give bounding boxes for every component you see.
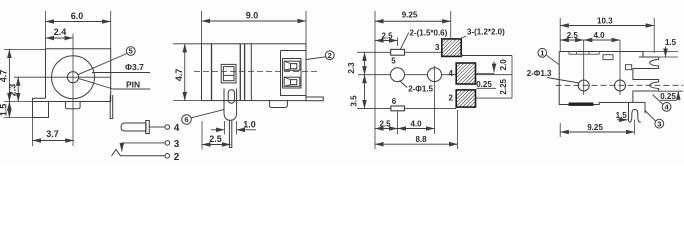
svg-text:9.25: 9.25 bbox=[402, 11, 418, 20]
view 4 dashed centerline bbox=[556, 84, 684, 86]
view 2 center pin slot bbox=[228, 90, 234, 104]
view 1 left mounting leg bbox=[33, 98, 49, 117]
view 4 pin 3 bent terminal bbox=[629, 109, 641, 122]
svg-text:3: 3 bbox=[174, 139, 180, 150]
view 2 dashed centerline bbox=[194, 71, 319, 73]
svg-text:2: 2 bbox=[449, 94, 454, 103]
view 2 dim 4.7 extension lines bbox=[173, 43, 202, 45]
view 3 bottom dim 2.5 bbox=[375, 128, 398, 130]
svg-text:5: 5 bbox=[391, 57, 396, 66]
leader balloon 4 bbox=[653, 95, 663, 105]
view 1 horizontal centerline bbox=[14, 76, 111, 78]
svg-text:2.5: 2.5 bbox=[379, 120, 391, 129]
svg-text:2-Φ1.5: 2-Φ1.5 bbox=[408, 85, 433, 94]
svg-text:10.3: 10.3 bbox=[597, 17, 613, 26]
view 2 terminal block inner bbox=[283, 59, 302, 89]
view 4 comb base recess profile bbox=[633, 57, 643, 102]
svg-text:4: 4 bbox=[174, 123, 180, 134]
view 4 bottom dark slot bbox=[569, 103, 593, 106]
view 3 right reference line bbox=[511, 56, 513, 99]
view 2 lower contact bbox=[284, 77, 300, 86]
svg-text:4.7: 4.7 bbox=[0, 70, 9, 83]
view 3 dim 2.3 bbox=[364, 52, 366, 74]
vertical centerline through right hole bbox=[434, 66, 436, 134]
svg-text:8.8: 8.8 bbox=[415, 135, 427, 144]
svg-text:9.25: 9.25 bbox=[587, 123, 603, 132]
view 2 terminal block outer bbox=[281, 51, 307, 96]
dim 9.0 extension lines bbox=[201, 11, 203, 44]
view 2 side window outer bbox=[221, 64, 236, 83]
svg-text:1.5: 1.5 bbox=[0, 104, 9, 117]
view 1 vertical centerline bbox=[72, 34, 74, 147]
leader balloon 6 to center pin bbox=[191, 110, 224, 118]
svg-text:2.0: 2.0 bbox=[499, 59, 508, 71]
view 3 dim 2.5 top bbox=[375, 40, 398, 42]
dim 2.5 extension line bbox=[201, 121, 203, 150]
leader to balloon 5 bbox=[78, 54, 127, 75]
svg-text:2-(1.5*0.6): 2-(1.5*0.6) bbox=[410, 29, 448, 38]
dim 10.3 bbox=[560, 25, 654, 27]
dim 4.0 top bbox=[584, 39, 620, 41]
dim 1.0 extension lines bbox=[224, 121, 226, 135]
pad 6 (1.5x0.6) bbox=[391, 106, 405, 111]
svg-text:9.0: 9.0 bbox=[246, 11, 259, 21]
svg-text:2.25: 2.25 bbox=[499, 78, 508, 94]
dim 2.0 arrow bbox=[493, 62, 495, 73]
svg-text:4.0: 4.0 bbox=[410, 120, 422, 129]
view 4 arch centerline bbox=[634, 120, 636, 135]
dim 2.5 top bbox=[560, 39, 584, 41]
balloon 1 bbox=[538, 48, 547, 57]
view 2 internal wall lines bbox=[239, 44, 241, 101]
dim 4.7 bbox=[8, 49, 10, 101]
dim 9.25 bottom bbox=[560, 131, 634, 133]
svg-text:6: 6 bbox=[392, 97, 397, 106]
svg-text:0.25: 0.25 bbox=[660, 92, 676, 101]
line pad3 to right reference bbox=[461, 55, 512, 57]
dim 2.3 bbox=[17, 77, 19, 101]
view 4 small slot B bbox=[626, 65, 632, 70]
svg-text:1.0: 1.0 bbox=[243, 120, 256, 130]
view 1 right mounting leg bbox=[110, 95, 113, 119]
view 2 upper contact bbox=[284, 61, 300, 70]
view 1 barrel outer circle bbox=[52, 56, 95, 99]
dim 9.25 bbox=[375, 20, 451, 22]
pad 4 (1.2x2.0) hatched bbox=[456, 63, 475, 84]
balloon 4 bbox=[662, 103, 671, 112]
svg-text:3.7: 3.7 bbox=[46, 129, 59, 139]
dim 6.0 extension lines bbox=[45, 11, 47, 49]
view 2 right pcb tab bbox=[306, 97, 323, 101]
view 4 top edge slot bbox=[569, 52, 599, 55]
svg-text:0.25: 0.25 bbox=[476, 80, 492, 89]
view 3 left reference line bbox=[374, 11, 376, 149]
svg-text:2.5: 2.5 bbox=[381, 32, 393, 41]
view 2 front panel line bbox=[211, 44, 213, 101]
dim 6.0 bbox=[46, 21, 111, 23]
svg-text:4: 4 bbox=[449, 69, 454, 78]
svg-text:3.5: 3.5 bbox=[350, 95, 359, 107]
view 4 pin 3 housing bbox=[629, 102, 646, 121]
view 3 dim 2.5 top extension bbox=[397, 38, 399, 47]
view 2 dim 4.7 bbox=[184, 44, 186, 101]
view 2 body outline (side view) bbox=[202, 44, 307, 101]
balloon 2 bbox=[325, 51, 334, 60]
dim 4.7 extension lines bbox=[4, 48, 46, 50]
view 4 hole vertical centerlines bbox=[583, 40, 585, 95]
svg-text:4.0: 4.0 bbox=[593, 31, 605, 40]
view 1 center shield tab bbox=[65, 102, 80, 109]
line pad4 top-right bbox=[476, 73, 495, 75]
view 4 body outline (top view) bbox=[559, 52, 643, 105]
svg-text:2.5: 2.5 bbox=[209, 134, 222, 144]
svg-text:4.7: 4.7 bbox=[174, 69, 184, 82]
spring contact symbol pin 2 bbox=[112, 150, 165, 157]
svg-text:2.3: 2.3 bbox=[347, 62, 356, 74]
balloon 6 bbox=[182, 115, 192, 125]
svg-text:Φ3.7: Φ3.7 bbox=[125, 62, 144, 72]
dim 9.25 extension bbox=[450, 11, 452, 39]
balloon 5 bbox=[126, 47, 135, 56]
view 2 mounting foot bbox=[269, 101, 287, 108]
view 4 terminal tooth middle bbox=[639, 80, 659, 92]
leader balloon 3 bbox=[645, 111, 656, 122]
dim 8.8 bbox=[375, 143, 458, 145]
pad 2 (1.2x2.0) hatched bbox=[456, 90, 475, 107]
leader balloon 1 bbox=[547, 55, 560, 64]
leader balloon 2 bbox=[306, 57, 326, 60]
dim 2.4 bbox=[46, 37, 74, 39]
view 1 center pin circle bbox=[67, 72, 78, 83]
svg-text:2.5: 2.5 bbox=[567, 31, 579, 40]
dim 1.0 arrows bbox=[211, 129, 225, 131]
vertical extension below left hole bbox=[397, 111, 399, 134]
svg-text:2.3: 2.3 bbox=[8, 84, 18, 97]
view 3 dim 3.5 bbox=[364, 75, 366, 109]
dim 3.7 extension lines bbox=[32, 118, 34, 147]
pad 5 (1.5x0.6) bbox=[391, 49, 405, 55]
dim 1.5 extension line bbox=[4, 117, 33, 119]
svg-text:6.0: 6.0 bbox=[71, 11, 84, 21]
view 2 side window inner bbox=[223, 67, 234, 81]
dim 9.25 extension bbox=[559, 123, 561, 137]
pad 3 (1.2x2.0) hatched bbox=[442, 39, 461, 57]
dim 8.8 extension bbox=[457, 110, 459, 149]
line pad2 right bbox=[476, 97, 513, 99]
view 4 mounting hole left 1.3 bbox=[578, 80, 589, 91]
view 3 horizontal centerline bbox=[358, 74, 512, 76]
view 3 bottom pad row line bbox=[357, 107, 456, 109]
label 2-dia1.5 with leader bbox=[400, 81, 408, 88]
view 1 body outline (front view) bbox=[46, 49, 111, 102]
svg-text:1.5: 1.5 bbox=[665, 38, 677, 47]
dim 3.7 bbox=[33, 140, 74, 142]
moving contact arrow bbox=[121, 143, 123, 152]
svg-text:1: 1 bbox=[540, 48, 544, 57]
view 1 body bottom edge bbox=[33, 101, 111, 103]
svg-text:3-(1.2*2.0): 3-(1.2*2.0) bbox=[467, 28, 505, 37]
view 4 mounting hole right bbox=[615, 80, 626, 91]
dim 9.0 bbox=[202, 20, 307, 22]
dim 0.25 right bbox=[659, 90, 683, 92]
dim 2.5 bbox=[202, 144, 231, 146]
svg-text:2: 2 bbox=[328, 51, 332, 60]
switch contact line pin 3 bbox=[122, 142, 165, 144]
svg-text:PIN: PIN bbox=[126, 80, 140, 90]
balloon 3 bbox=[655, 119, 664, 128]
view 4 terminal tooth top bbox=[639, 57, 659, 69]
svg-text:1.5: 1.5 bbox=[616, 111, 628, 120]
view 3 top pad row line bbox=[357, 51, 442, 53]
hole right bbox=[428, 68, 442, 82]
svg-text:6: 6 bbox=[184, 115, 188, 124]
svg-text:5: 5 bbox=[129, 47, 133, 56]
svg-text:2.4: 2.4 bbox=[54, 27, 67, 37]
dim 10.3 extension lines bbox=[559, 18, 561, 52]
svg-text:2: 2 bbox=[174, 152, 180, 163]
svg-text:3: 3 bbox=[657, 119, 661, 128]
plug barrel symbol pin 4 bbox=[121, 123, 146, 131]
view 3 bottom dim 4.0 bbox=[398, 128, 435, 130]
svg-text:2-Φ1.3: 2-Φ1.3 bbox=[527, 69, 552, 78]
view 2 center pin bbox=[224, 89, 237, 121]
view 4 small slot A bbox=[603, 55, 613, 60]
hole left 2-dia1.5 bbox=[391, 68, 405, 82]
view 2 pin tip bbox=[229, 120, 231, 147]
svg-text:3: 3 bbox=[435, 43, 440, 52]
dim 1.5 bbox=[8, 102, 10, 118]
